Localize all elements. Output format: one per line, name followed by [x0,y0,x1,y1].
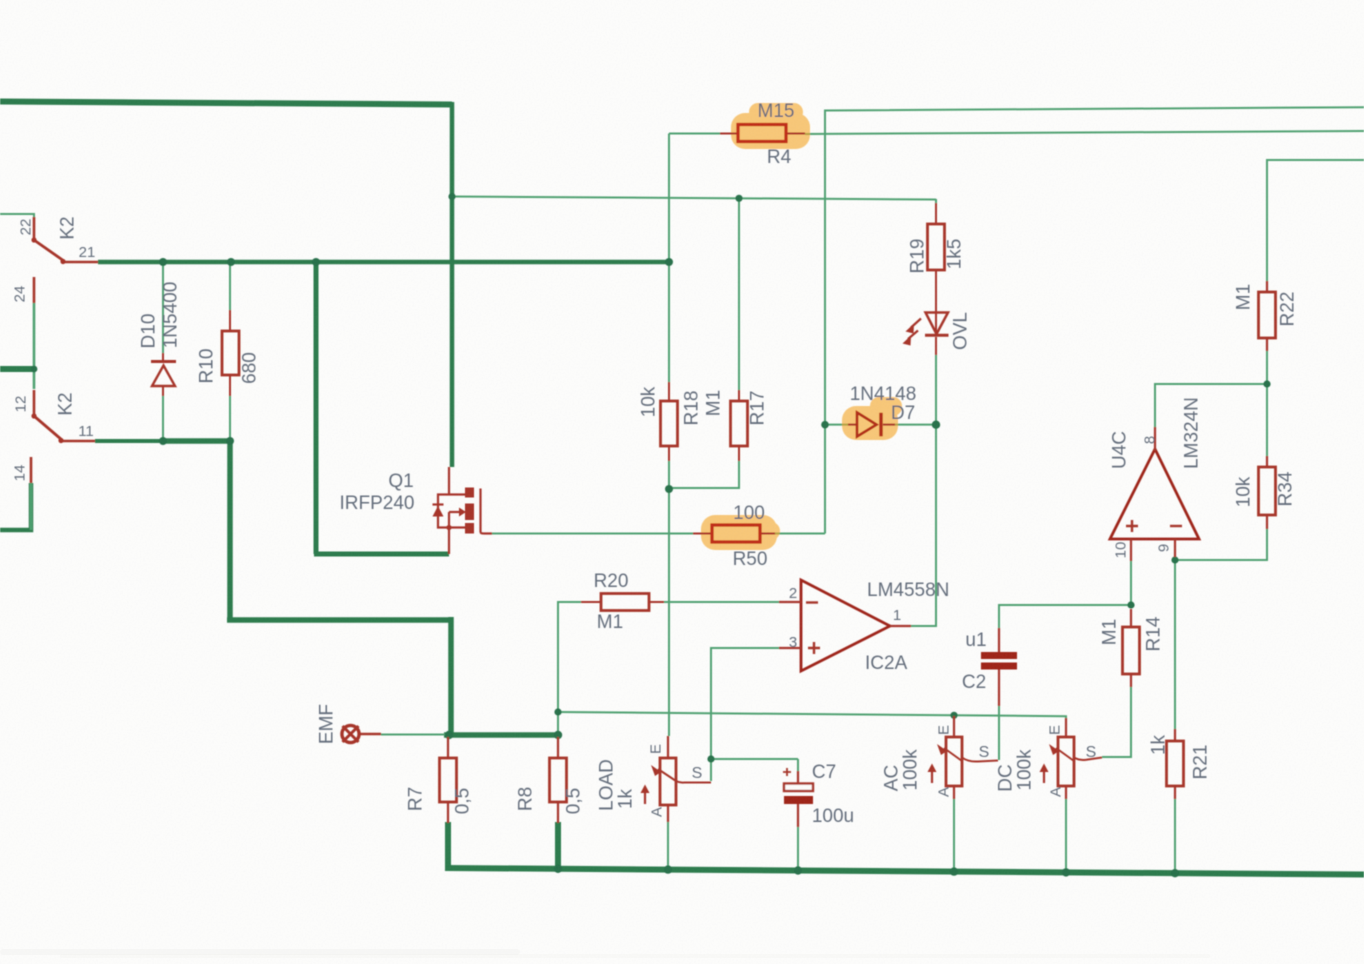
node D7 cathode [932,421,940,429]
node 21-R18 [665,258,673,266]
node gnd-DC [1062,868,1070,876]
wire node11 row [95,439,163,443]
relay contact K2 lower pivot dots [31,413,36,418]
highlight over R50 [701,515,780,550]
wire R21 top [1174,560,1176,729]
node gnd-C7 [794,866,802,874]
LED OVL [935,282,937,334]
wire row198 [452,197,936,200]
wire opamp out vertical [911,425,936,626]
wire R4 left [669,133,720,135]
node load wiper [707,755,714,762]
potentiometer AC 100k [953,716,955,737]
wire R8 ground lead [555,822,561,869]
wire C7 bottom [797,827,799,871]
node R14 top [1127,601,1134,608]
wire pin3 elbow [711,648,779,759]
highlight over D7 [842,397,902,440]
wire D7 right [895,424,936,426]
wire R18 top [668,262,670,382]
wire D10 top [162,262,164,353]
wire D7 left [825,424,848,426]
node T-left [31,366,38,373]
node R22-R34 [1263,380,1270,387]
node row198-drain [448,193,455,200]
wire D10 bottom [162,396,164,441]
resistor R19 1k5 [935,203,937,282]
relay contact K2 upper: pin21 stub [62,261,98,264]
wire R17 top vertical [738,198,740,390]
resistor R4 M15 (highlighted) [720,133,805,135]
node R18-R17 bottom [665,485,673,493]
wire R20 right to pin2 [661,601,779,603]
wire wiper node row [711,758,798,760]
wire R20 left [558,602,581,735]
wire R10 bottom [229,396,231,439]
wire node11 row thick segment [163,438,231,444]
op-amp IC2A LM4558N [801,580,890,671]
wire R18 bottom node [668,461,670,736]
wire DC pot A down [1065,799,1067,873]
relay contact K2 upper: arm [34,240,64,261]
relay contact K2 lower pin14 stub [30,457,33,483]
node 21-source [312,258,320,266]
node gnd-load [664,865,672,873]
wire ground row [445,868,1364,875]
relay contact K2 lower: arm [34,416,62,440]
wire R4 left vertical [668,134,670,263]
resistor R50 100 (highlighted) [693,533,775,535]
wire pin9 node row [1175,529,1267,560]
diode D7 1N4148 (highlighted) [848,424,857,426]
wire left T row [0,366,34,372]
node gnd-AC [950,867,958,875]
wire AC pot A down [953,799,955,872]
resistor R22 M1 [1266,281,1268,351]
wire pin14 elbow [0,483,31,530]
wire mid row [227,617,451,623]
relay contact K2 upper pin24 stub [33,277,36,303]
wire pin8 elbow [1155,384,1267,427]
potentiometer LOAD 1k [667,736,669,758]
resistor R14 M1 [1130,609,1132,687]
wire source row [314,552,449,557]
wire node21 row [98,260,669,265]
wire OVL bottom [935,355,937,425]
wire top feed row [0,102,452,105]
node 21-D10 [159,258,167,266]
wire pin14 down [30,483,33,530]
wire gate row [492,533,693,535]
relay contact K2 lower: pin12 stub [33,390,36,415]
wire R17 bottom [669,461,739,488]
wire R22 bottom [1266,351,1268,383]
wire C2 top elbow [999,605,1131,628]
resistor R17 M1 [738,390,740,461]
wire top net3 [1267,160,1364,281]
capacitor C2 u1 [981,652,1017,659]
node AC E [950,712,957,719]
wire emf feed vertical [448,617,454,735]
scan streak bottom [0,949,520,955]
wire R50 right [775,533,825,535]
node row198-R17 [735,195,742,202]
wire emf row [444,732,558,738]
node 11-D10 [159,437,167,445]
relay contact K2 upper: pin22 stub [33,217,36,239]
wire C7 top [797,759,799,771]
node emf-R8 [554,731,562,739]
node D7 anode [821,421,829,429]
wire R21 bottom [1174,799,1176,874]
wire pin24 to T [33,303,36,389]
resistor R18 10k [668,382,670,461]
capacitor C7 100u [784,784,813,792]
node gnd-R8 [554,865,562,873]
wire load wiper up [710,759,712,781]
wire load A down [667,822,669,870]
wire C2 bottom elbow [998,706,1000,760]
wire emf lead [381,734,445,736]
wire top net2 [825,107,1364,533]
wire R14 bottom to wiper [1102,687,1131,757]
resistor R34 10k [1266,456,1268,529]
node 21-R10 [227,258,235,266]
wire R10 top [229,262,231,310]
wire pin22 feed [0,214,34,217]
wire drain vertical [450,102,455,467]
resistor R20 M1 [581,601,664,603]
supply symbol EMF [342,725,359,742]
potentiometer DC 100k [1065,718,1067,737]
wire R19 top [935,199,937,203]
node 11-R10 [226,437,234,445]
diode D10 1N5400 [162,353,164,362]
op-amp U4C LM324N [1110,449,1199,539]
wire row712 [558,712,1066,720]
wire R14 top to pin10 [1130,560,1132,605]
node pin9 [1171,556,1178,563]
relay contact K2 lower: pin11 stub [60,440,95,443]
wire R34 top [1266,383,1268,456]
node gnd-R21 [1171,869,1179,877]
node R20 column [554,708,561,715]
wire source vertical [314,262,319,554]
resistor R21 1k [1174,729,1176,799]
wire R7 ground lead [445,822,451,869]
relay contact K2 upper pivot dots [31,237,36,242]
wire R10 down vertical [227,439,233,620]
wire R4 right to edge [805,131,1364,134]
LED OVL arrows [911,319,921,328]
resistor R8 0,5 [557,737,559,823]
node emf-R7 [445,731,453,739]
highlight over R4 [731,103,810,149]
resistor R7 0,5 [447,737,449,823]
resistor R10 680 [229,310,231,396]
transistor Q1 IRFP240 [438,467,492,554]
